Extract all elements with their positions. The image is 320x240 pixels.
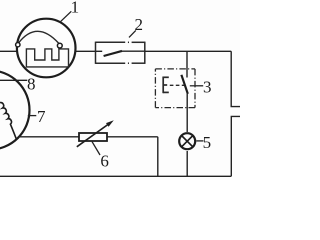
rheostat R6 arrow head [106,120,114,127]
wire timer to switch S2 [75,50,96,52]
lamp HL5 circle [179,133,195,149]
svg-text:8: 8 [27,75,36,94]
wire left feed to timer [0,50,17,52]
terminal node right of timer [57,43,62,48]
rheostat R6 body [79,133,107,141]
svg-text:1: 1 [71,0,80,16]
lamp HL5 cross [182,136,193,147]
wire rheostat to drop [107,136,158,138]
label 6 leader [92,142,100,155]
svg-text:2: 2 [135,15,144,34]
bottom bus wire [0,175,231,177]
rheostat R6 arrow shaft [77,124,109,147]
thermal sensor E inside K3 [163,77,169,94]
svg-text:7: 7 [37,107,46,126]
svg-text:5: 5 [203,133,212,152]
switch S2 left contact stub [96,50,103,52]
svg-text:6: 6 [100,151,109,170]
dash from lever to box edge [190,85,195,87]
label 2 leader [129,30,136,37]
motor winding scallops [0,103,17,140]
label 3 leader [195,85,203,87]
wire drop into thermostat K3 [186,51,188,77]
thermostat contact lever [181,75,187,94]
label 5 leader [196,140,203,142]
cam square-wave profile inside timer [26,49,68,67]
compressor motor M7 circle (clipped at left) [0,71,30,150]
wire thermostat to lamp [186,94,188,133]
top bus wire to right rail [145,50,231,52]
wire motor to rheostat R6 [18,136,79,138]
right rail lower segment [231,116,240,176]
dashed actuating link inside K3 [170,84,184,86]
label 7 leader [28,115,37,117]
wiper arc inside timer [19,31,59,43]
rheostat branch drop wire [157,137,159,177]
wire lamp to bottom bus [186,151,188,176]
switch S2 enclosure (chain box) [96,42,145,64]
right rail upper segment [231,51,240,106]
svg-text:3: 3 [203,77,212,96]
thermostat K3 chain-line box [155,69,195,108]
terminal node left of timer [16,43,20,47]
label 8 leader [0,79,27,81]
timer motor U1 outer circle [17,19,76,78]
switch S2 right wire [122,50,145,52]
label 1 leader [60,11,71,21]
switch S2 lever [104,51,122,56]
